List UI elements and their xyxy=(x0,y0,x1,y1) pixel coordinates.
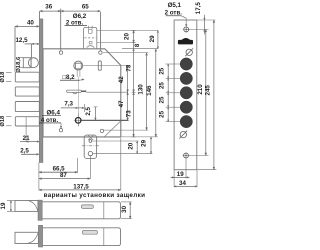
svg-text:19: 19 xyxy=(0,202,7,209)
svg-text:42: 42 xyxy=(118,76,125,83)
svg-text:20: 20 xyxy=(123,33,130,40)
svg-text:20: 20 xyxy=(128,142,135,149)
svg-text:40: 40 xyxy=(27,19,34,26)
svg-text:73: 73 xyxy=(126,110,133,117)
svg-text:210: 210 xyxy=(197,84,204,95)
svg-text:25: 25 xyxy=(158,82,165,89)
svg-text:29: 29 xyxy=(140,139,147,146)
svg-text:245: 245 xyxy=(205,85,212,96)
svg-text:БУЛАТ: БУЛАТ xyxy=(180,40,192,44)
svg-text:17,5: 17,5 xyxy=(195,2,202,15)
svg-text:137,5: 137,5 xyxy=(73,183,89,190)
svg-text:47: 47 xyxy=(118,100,125,107)
svg-text:12,5: 12,5 xyxy=(15,37,28,44)
svg-text:Ø18,6: Ø18,6 xyxy=(16,56,22,73)
svg-text:25: 25 xyxy=(158,67,165,74)
svg-text:25: 25 xyxy=(158,96,165,103)
svg-text:варианты установки защелки: варианты установки защелки xyxy=(44,192,146,199)
svg-text:8: 8 xyxy=(134,43,141,47)
svg-text:2,5: 2,5 xyxy=(20,148,29,155)
svg-text:130: 130 xyxy=(137,84,144,95)
svg-text:146: 146 xyxy=(146,85,153,96)
svg-text:25: 25 xyxy=(158,110,165,117)
svg-text:73: 73 xyxy=(126,64,133,71)
svg-text:Ø18: Ø18 xyxy=(0,115,6,127)
svg-text:29: 29 xyxy=(149,35,156,42)
svg-text:36: 36 xyxy=(45,4,52,11)
svg-text:2 отв.: 2 отв. xyxy=(165,10,183,17)
svg-text:34: 34 xyxy=(179,180,186,187)
svg-text:65: 65 xyxy=(82,4,89,11)
svg-text:30: 30 xyxy=(121,205,128,212)
svg-text:87: 87 xyxy=(60,172,67,179)
svg-text:2,5: 2,5 xyxy=(85,106,92,115)
svg-text:7,3: 7,3 xyxy=(64,101,73,108)
svg-text:Ø18: Ø18 xyxy=(0,71,6,83)
svg-text:Ø5,1: Ø5,1 xyxy=(168,2,182,9)
svg-text:□8,2: □8,2 xyxy=(62,74,75,81)
